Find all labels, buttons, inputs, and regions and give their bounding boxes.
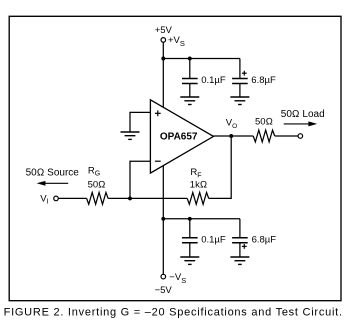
wire C3 top lead xyxy=(189,219,191,238)
ground at non-inverting input xyxy=(121,131,140,133)
node Vi input terminal xyxy=(54,196,59,201)
wire C2 top lead xyxy=(239,59,241,79)
svg-text:VI: VI xyxy=(40,193,48,205)
wire non-inverting input to ground xyxy=(130,111,150,113)
svg-text:50Ω: 50Ω xyxy=(88,179,106,190)
arrow load (pointing right) xyxy=(284,123,310,125)
svg-text:+VS: +VS xyxy=(168,35,185,48)
svg-text:−VS: −VS xyxy=(169,272,186,285)
wire C3 bottom lead xyxy=(189,243,191,257)
svg-text:50Ω Load: 50Ω Load xyxy=(281,109,325,120)
resistor Rg 50ohm xyxy=(87,192,109,204)
node load terminal xyxy=(298,134,303,139)
op-amp U1 OPA657 xyxy=(150,100,213,173)
capacitor C3 0.1uF (bottom) xyxy=(182,237,198,239)
wire Vi to Rg xyxy=(58,197,86,199)
wire Rg to summing node xyxy=(108,197,187,199)
resistor Rf 1kohm xyxy=(187,192,209,204)
svg-text:0.1µF: 0.1µF xyxy=(201,75,226,86)
node junction Vo xyxy=(229,134,233,138)
svg-text:50Ω: 50Ω xyxy=(255,117,273,128)
svg-text:−5V: −5V xyxy=(155,285,173,296)
wire inverting input xyxy=(130,160,150,162)
arrow source (pointing left) xyxy=(44,182,68,184)
wire C2 bottom lead xyxy=(239,84,241,98)
wire bottom supply rail xyxy=(163,218,240,220)
ground below C3 xyxy=(180,256,199,258)
resistor Rload 50ohm xyxy=(253,130,274,142)
wire C4 top lead xyxy=(239,219,241,238)
svg-text:6.8µF: 6.8µF xyxy=(251,75,276,86)
wire +Vs vertical to op-amp V+ pin xyxy=(162,42,164,108)
wire C1 top lead xyxy=(189,59,191,79)
svg-text:1kΩ: 1kΩ xyxy=(190,179,207,190)
node junction C1 top xyxy=(188,57,192,61)
svg-text:50Ω Source: 50Ω Source xyxy=(26,168,80,179)
svg-text:RG: RG xyxy=(88,165,100,177)
svg-text:FIGURE 2. Inverting G = –20 Sp: FIGURE 2. Inverting G = –20 Specificatio… xyxy=(4,307,343,319)
capacitor C2 6.8uF (top, polarized) xyxy=(232,78,248,80)
wire C4 bottom lead xyxy=(239,243,241,257)
wire Rf to output node xyxy=(209,197,232,199)
wire op-amp output xyxy=(214,135,254,137)
svg-text:0.1µF: 0.1µF xyxy=(201,234,226,245)
svg-text:RF: RF xyxy=(190,167,201,179)
svg-text:OPA657: OPA657 xyxy=(160,131,198,142)
svg-text:6.8µF: 6.8µF xyxy=(252,234,277,245)
node +Vs supply terminal xyxy=(161,38,166,43)
node junction inverting input xyxy=(128,196,132,200)
figure border frame xyxy=(9,16,341,300)
node junction +Vs rail xyxy=(161,57,165,61)
capacitor C1 0.1uF (top) xyxy=(182,78,198,80)
node junction -Vs rail xyxy=(161,217,165,221)
wire to load terminal xyxy=(275,135,298,137)
capacitor C4 6.8uF (bottom, polarized) xyxy=(232,237,248,239)
ground below C1 xyxy=(180,96,199,98)
svg-text:VO: VO xyxy=(226,118,237,130)
ground below C4 xyxy=(230,256,249,258)
node junction C3 top xyxy=(188,217,192,221)
wire top supply rail xyxy=(163,58,240,60)
node -Vs supply terminal xyxy=(161,274,166,279)
wire C1 bottom lead xyxy=(189,84,191,98)
ground below C2 xyxy=(230,96,249,98)
wire op-amp V- pin down (crosses feedback net) xyxy=(162,165,164,274)
